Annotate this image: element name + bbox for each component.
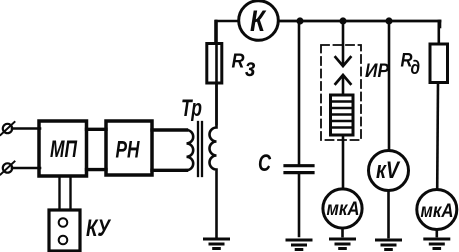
- svg-text:К: К: [250, 5, 267, 38]
- svg-text:мкА: мкА: [327, 199, 360, 220]
- svg-text:C: C: [258, 150, 271, 177]
- svg-text:КУ: КУ: [86, 215, 111, 242]
- svg-text:Тр: Тр: [181, 95, 202, 122]
- svg-text:РН: РН: [116, 137, 140, 164]
- svg-text:R: R: [232, 51, 245, 73]
- svg-text:д: д: [411, 58, 421, 79]
- svg-text:з: з: [245, 52, 256, 82]
- svg-text:мкА: мкА: [421, 201, 454, 222]
- svg-text:ИР: ИР: [365, 61, 389, 82]
- svg-text:кV: кV: [376, 157, 401, 184]
- svg-text:МП: МП: [50, 136, 78, 163]
